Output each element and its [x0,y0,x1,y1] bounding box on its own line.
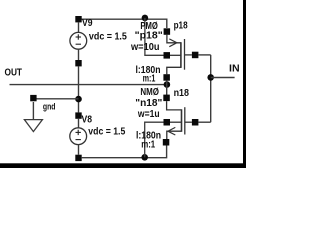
NM0 source lead with arrow away from channel [167,131,182,139]
NM0 gate pin square [192,119,199,126]
node IN: junction dot [207,74,214,81]
svg-text:p18: p18 [174,21,188,32]
svg-text:w=1u: w=1u [137,109,160,120]
PM0 drain lead (bottom) [167,67,181,74]
wire: V9 minus down to V8 plus (gnd column) [78,66,80,112]
wire: branch to gnd symbol [33,98,78,100]
svg-text:m:1: m:1 [141,140,155,151]
svg-text:vdc = 1.5: vdc = 1.5 [89,32,127,43]
svg-text:m:1: m:1 [143,74,156,85]
wire: V9 bottom stub [78,49,80,60]
voltage source V9 body [70,32,87,49]
NM0 drain pin square (top) [163,95,170,102]
wire: V8 bottom stub [78,145,80,155]
transistor PM0 (pmos p18) [163,28,198,80]
PM0 bulk lead [170,54,181,56]
PM0 gate pin square [192,52,199,59]
wire: NMOS gate to right gate column [198,121,210,123]
node vdd: junction dot on top rail for PMOS bulk tap [142,15,149,22]
svg-text:V9: V9 [82,18,93,29]
wire: IN stub [211,77,235,79]
PM0 source lead with arrow into channel [167,35,181,43]
PM0 gate lead [185,54,192,56]
NM0 bulk pin square [164,119,171,126]
wire: right gate column vertical (IN net) [210,55,212,122]
NM0 gate poly bar [184,107,186,134]
svg-text:V8: V8 [82,115,93,126]
ground symbol [24,102,42,132]
NM0 drain lead [167,101,182,110]
svg-text:"p18": "p18" [135,30,163,41]
svg-text:NMØ: NMØ [140,87,159,98]
voltage source V9 pin square (plus, on vdd rail) [75,16,81,22]
wire: V9 top stub [78,22,80,32]
svg-text:n18: n18 [174,88,190,99]
svg-text:OUT: OUT [5,67,23,78]
PM0 bulk pin square [164,52,171,59]
transistor NM0 (nmos n18) [163,95,199,146]
voltage source V8 pin square (minus, on bottom rail) [75,155,81,161]
voltage source V8 body [70,128,87,145]
wire: OUT net horizontal to inverter output node [10,84,167,86]
voltage source V8 pin square (plus) [75,112,81,118]
svg-text:gnd: gnd [43,101,56,112]
NM0 bulk lead [170,121,182,123]
wire: V8 top stub [78,119,80,128]
svg-text:vdc = 1.5: vdc = 1.5 [88,127,125,138]
NM0 channel bar [181,109,183,132]
PM0 drain pin square [163,74,170,81]
window border right [243,0,246,168]
node OUT: junction dot at drain column [164,81,171,88]
wire: drain column between PM0 drain and NM0 drain [166,81,168,96]
wire: PMOS bulk tap from vdd rail down and right [145,18,164,55]
node gnd column: junction dot to gnd symbol branch [75,96,82,103]
wire: PMOS gate to right gate column [198,54,210,56]
PM0 source pin square (top) [164,28,171,35]
PM0 gate poly bar [184,39,186,70]
svg-text:IN: IN [229,64,240,75]
gnd pin square [30,95,36,101]
NM0 source pin square [163,139,170,146]
PM0 channel bar [180,42,182,68]
NM0 gate lead [185,121,192,123]
voltage source V9 pin square (minus) [75,60,81,66]
svg-text:"n18": "n18" [135,98,162,109]
window border bottom [0,163,246,168]
node: junction dot on bottom rail for NMOS bulk tap [141,154,148,161]
wire: vdd top rail from V9 plus to PMOS source column [79,19,167,28]
wire: NMOS bulk tap from bottom rail up and right [145,122,164,157]
wire: bottom rail from V8 minus to NMOS source column [82,145,167,157]
svg-text:w=10u: w=10u [130,42,159,53]
